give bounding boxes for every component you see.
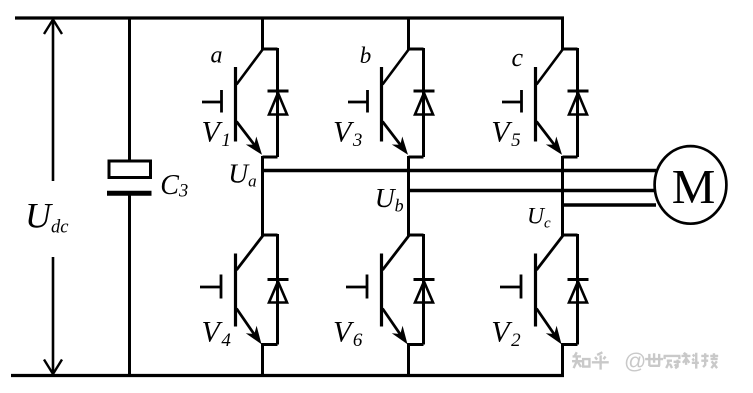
wire: V4 emitter to bottom bus — [263, 345, 278, 378]
wire: output node to V2 collector node — [563, 156, 578, 235]
top DC bus (+) — [15, 16, 564, 19]
wire: leg top, bus to V3 collector node — [409, 17, 424, 50]
wire: phase a output line to motor — [263, 169, 657, 173]
wire: V2 emitter to bottom bus — [563, 345, 578, 378]
IGBT V6 — [346, 235, 409, 344]
wire: phase b output line to motor — [409, 189, 657, 193]
svg-text:c: c — [512, 43, 524, 72]
anti-parallel diode of V5 — [568, 48, 589, 157]
wire: V1 emitter / diode anode to output node — [263, 156, 278, 159]
svg-text:b: b — [360, 43, 372, 68]
IGBT V3 — [348, 49, 409, 155]
wire: output node to V4 collector node — [263, 156, 278, 235]
motor M — [655, 146, 727, 224]
wire: leg top, bus to V1 collector node — [263, 17, 278, 50]
IGBT V2 — [500, 235, 563, 344]
anti-parallel diode of V1 — [268, 48, 289, 157]
wire: V3 emitter / diode anode to output node — [409, 156, 424, 159]
wire: capacitor C3 to bottom bus — [128, 196, 131, 376]
IGBT V5 — [502, 49, 563, 155]
svg-text:@: @ — [624, 349, 646, 374]
IGBT V4 — [200, 235, 263, 344]
bottom DC bus (-) — [11, 374, 564, 377]
wire: phase c output line to motor — [563, 203, 657, 207]
anti-parallel diode of V3 — [414, 48, 435, 157]
svg-text:a: a — [211, 42, 223, 68]
anti-parallel diode of V6 — [414, 234, 435, 345]
watermark: zhihu @shiguan keji — [572, 349, 718, 374]
wire: leg top, bus to V5 collector node — [563, 17, 578, 50]
wire: V5 emitter / diode anode to output node — [563, 156, 578, 159]
capacitor C3 (electrolytic) — [107, 161, 152, 193]
wire: output node to V6 collector node — [409, 156, 424, 235]
wire: top bus to capacitor C3 — [128, 18, 131, 162]
svg-text:M: M — [672, 159, 716, 214]
anti-parallel diode of V4 — [268, 234, 289, 345]
Udc dimension arrow (double headed) — [44, 20, 62, 375]
IGBT V1 — [202, 49, 263, 155]
wire: V6 emitter to bottom bus — [409, 345, 424, 378]
anti-parallel diode of V2 — [568, 234, 589, 345]
